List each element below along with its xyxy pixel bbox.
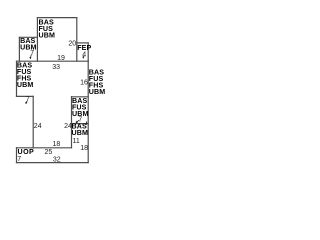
wall: main block lower left edge — [32, 96, 34, 147]
svg-text:7: 7 — [17, 156, 21, 163]
wall: FEP porch right edge — [87, 43, 89, 61]
wall: FEP porch top edge — [77, 42, 88, 44]
svg-text:20: 20 — [68, 41, 76, 48]
wall: small left box top edge — [19, 36, 37, 38]
svg-text:33: 33 — [52, 64, 60, 71]
wall: interior strip top edge — [72, 96, 89, 98]
wall: small left box left edge — [18, 37, 20, 61]
wall: interior strip left edge — [71, 97, 73, 148]
svg-text:UOP: UOP — [18, 148, 35, 156]
svg-text:18: 18 — [53, 141, 61, 148]
wall: bottom edge — [17, 162, 89, 164]
arrow for dimension 4 (FEP) — [82, 56, 84, 57]
svg-text:18: 18 — [80, 145, 88, 152]
arrow mark (strip divider right) — [86, 121, 88, 123]
wall: main block right edge — [87, 61, 89, 162]
svg-text:UBM: UBM — [89, 88, 105, 96]
svg-text:UBM: UBM — [17, 81, 33, 89]
wall: UOP left edge — [16, 148, 18, 163]
svg-text:32: 32 — [53, 157, 61, 164]
wall: top box right edge — [76, 18, 78, 62]
svg-text:24: 24 — [64, 123, 72, 130]
svg-text:25: 25 — [45, 149, 53, 156]
svg-text:UBM: UBM — [39, 32, 55, 40]
svg-text:11: 11 — [73, 138, 80, 145]
wall: main block top edge — [17, 60, 89, 62]
wall: main block upper left edge — [16, 61, 18, 96]
wall: main block bottom / UOP top edge — [17, 147, 72, 149]
wall: top box top edge — [37, 17, 76, 19]
svg-text:7: 7 — [78, 117, 82, 124]
svg-text:19: 19 — [57, 55, 65, 62]
wall: interior strip divider — [72, 123, 89, 125]
arrow for dimension 7 (strip upper) — [77, 120, 79, 122]
arrow for dimension 7 (small left box) — [29, 55, 32, 58]
arrow for dimension 7 (left step) — [25, 101, 28, 103]
wall: top box left edge — [36, 18, 38, 62]
svg-text:UBM: UBM — [72, 129, 88, 137]
svg-text:FEP: FEP — [77, 44, 91, 52]
svg-text:16: 16 — [80, 79, 88, 86]
svg-text:24: 24 — [34, 123, 42, 130]
wall: left step edge — [17, 95, 34, 97]
